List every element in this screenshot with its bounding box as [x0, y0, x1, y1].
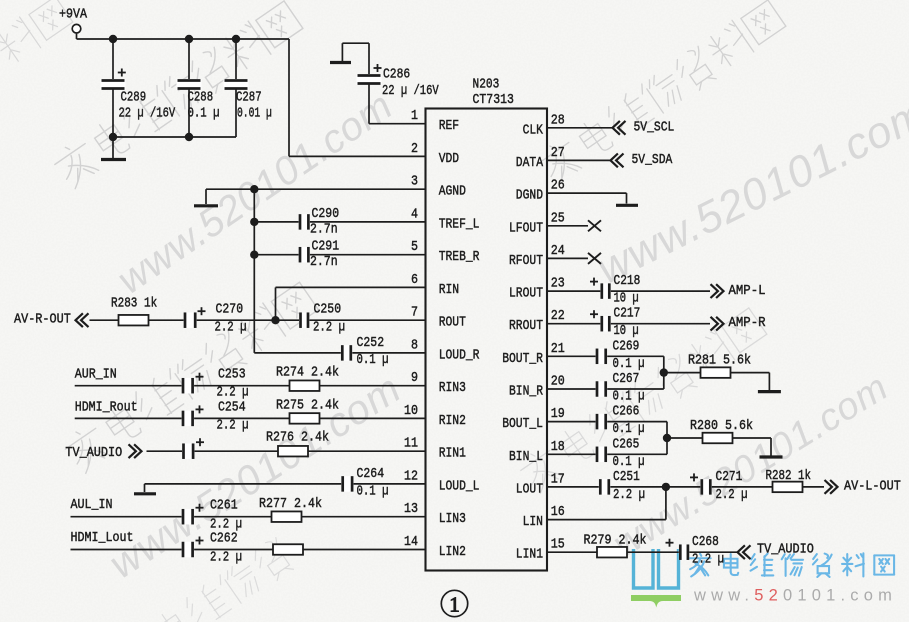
- svg-text:2.7n: 2.7n: [310, 255, 338, 270]
- svg-text:2.2 µ: 2.2 µ: [217, 386, 249, 401]
- svg-text:HDMI_Rout: HDMI_Rout: [75, 400, 138, 415]
- svg-text:0.1 µ: 0.1 µ: [613, 422, 645, 437]
- svg-text:2.2 µ: 2.2 µ: [313, 321, 345, 336]
- svg-text:2.2 µ: 2.2 µ: [613, 488, 645, 503]
- svg-text:0.1 µ: 0.1 µ: [188, 107, 220, 122]
- svg-text:R280 5.6k: R280 5.6k: [690, 419, 753, 434]
- svg-text:C286: C286: [383, 68, 410, 83]
- svg-text:LOUD_L: LOUD_L: [439, 478, 480, 494]
- svg-text:RIN3: RIN3: [439, 380, 466, 396]
- svg-text:0.1 µ: 0.1 µ: [357, 353, 389, 368]
- svg-text:R281 5.6k: R281 5.6k: [688, 354, 751, 369]
- svg-text:LIN1: LIN1: [516, 547, 543, 563]
- svg-text:0.1 µ: 0.1 µ: [613, 390, 645, 405]
- svg-text:0.1 µ: 0.1 µ: [357, 484, 389, 499]
- svg-text:www.520101.com: www.520101.com: [693, 587, 897, 605]
- svg-text:2.2 µ: 2.2 µ: [716, 488, 748, 503]
- svg-text:22: 22: [551, 309, 565, 324]
- svg-text:9: 9: [411, 371, 418, 386]
- svg-text:RIN2: RIN2: [439, 413, 466, 429]
- svg-text:AV-R-OUT: AV-R-OUT: [14, 313, 71, 328]
- svg-text:C251: C251: [613, 470, 640, 485]
- svg-text:C288: C288: [188, 91, 214, 106]
- svg-text:12: 12: [404, 469, 418, 484]
- svg-text:C265: C265: [613, 437, 640, 452]
- svg-text:C267: C267: [613, 372, 640, 387]
- svg-text:6: 6: [411, 273, 418, 288]
- svg-text:LIN2: LIN2: [439, 544, 466, 560]
- svg-text:TV_AUDIO: TV_AUDIO: [757, 543, 814, 558]
- svg-text:TREF_L: TREF_L: [439, 216, 480, 232]
- svg-text:2: 2: [411, 142, 418, 157]
- svg-text:RIN: RIN: [439, 282, 459, 298]
- svg-text:R279 2.4k: R279 2.4k: [584, 534, 647, 549]
- svg-text:C264: C264: [357, 467, 385, 482]
- svg-text:R275 2.4k: R275 2.4k: [276, 398, 339, 413]
- svg-text:11: 11: [404, 437, 418, 452]
- svg-text:13: 13: [404, 502, 418, 517]
- svg-text:25: 25: [551, 211, 565, 226]
- svg-text:16: 16: [551, 505, 565, 520]
- svg-text:AMP-R: AMP-R: [729, 316, 766, 331]
- svg-text:LIN3: LIN3: [439, 511, 466, 527]
- svg-text:C262: C262: [210, 532, 238, 547]
- svg-text:5V_SCL: 5V_SCL: [634, 120, 675, 135]
- svg-text:BIN_R: BIN_R: [509, 384, 543, 400]
- svg-text:R276 2.4k: R276 2.4k: [266, 431, 329, 446]
- svg-text:22 µ /16V: 22 µ /16V: [119, 107, 176, 122]
- svg-text:C217: C217: [614, 307, 641, 322]
- svg-text:CLK: CLK: [523, 122, 544, 138]
- svg-text:3: 3: [411, 175, 418, 190]
- svg-text:10 µ: 10 µ: [614, 292, 639, 307]
- svg-text:RFOUT: RFOUT: [509, 253, 543, 269]
- svg-text:R283 1k: R283 1k: [111, 297, 157, 312]
- svg-text:C270: C270: [216, 303, 244, 318]
- svg-text:2.2 µ: 2.2 µ: [217, 418, 249, 433]
- svg-text:ROUT: ROUT: [439, 315, 466, 331]
- svg-text:R277 2.4k: R277 2.4k: [259, 497, 322, 512]
- svg-text:C289: C289: [121, 91, 147, 106]
- svg-text:7: 7: [411, 306, 418, 321]
- svg-text:BOUT_R: BOUT_R: [502, 351, 543, 367]
- svg-text:LIN: LIN: [523, 514, 543, 530]
- svg-text:2.2 µ: 2.2 µ: [210, 551, 242, 566]
- svg-text:8: 8: [411, 338, 418, 353]
- svg-text:20: 20: [551, 375, 565, 390]
- svg-text:C261: C261: [210, 499, 238, 514]
- svg-text:0.01 µ: 0.01 µ: [237, 107, 272, 122]
- svg-text:CT7313: CT7313: [473, 93, 514, 108]
- svg-text:4: 4: [411, 207, 418, 222]
- svg-text:DGND: DGND: [516, 188, 543, 204]
- svg-text:TREB_R: TREB_R: [439, 249, 480, 265]
- svg-text:C290: C290: [312, 207, 340, 222]
- svg-text:+9VA: +9VA: [59, 8, 88, 23]
- svg-text:LROUT: LROUT: [509, 286, 543, 302]
- svg-text:15: 15: [551, 538, 565, 553]
- svg-text:REF: REF: [439, 118, 459, 134]
- svg-text:C252: C252: [357, 336, 385, 351]
- svg-text:2.2 µ: 2.2 µ: [692, 553, 724, 568]
- svg-text:18: 18: [551, 440, 565, 455]
- svg-text:BIN_L: BIN_L: [509, 449, 543, 465]
- svg-text:1: 1: [411, 109, 418, 124]
- svg-text:C271: C271: [716, 470, 743, 485]
- svg-text:10: 10: [404, 404, 418, 419]
- svg-text:5: 5: [411, 240, 418, 255]
- svg-text:AUR_IN: AUR_IN: [75, 368, 117, 383]
- svg-text:RIN1: RIN1: [439, 446, 466, 462]
- svg-text:17: 17: [551, 472, 565, 487]
- svg-text:R282 1k: R282 1k: [766, 469, 812, 484]
- svg-text:C287: C287: [236, 91, 262, 106]
- svg-text:AMP-L: AMP-L: [729, 284, 766, 299]
- svg-text:14: 14: [404, 535, 418, 550]
- svg-text:AGND: AGND: [439, 184, 466, 200]
- svg-text:AV-L-OUT: AV-L-OUT: [844, 479, 901, 494]
- svg-text:C266: C266: [613, 405, 640, 420]
- svg-text:N203: N203: [473, 78, 500, 93]
- svg-text:TV_AUDIO: TV_AUDIO: [65, 446, 122, 461]
- svg-text:10 µ: 10 µ: [614, 324, 639, 339]
- svg-text:23: 23: [551, 277, 565, 292]
- svg-text:RROUT: RROUT: [509, 318, 543, 334]
- svg-text:R274 2.4k: R274 2.4k: [276, 366, 339, 381]
- svg-text:BOUT_L: BOUT_L: [502, 416, 543, 432]
- svg-text:C268: C268: [692, 535, 719, 550]
- svg-text:28: 28: [551, 113, 565, 128]
- svg-text:LFOUT: LFOUT: [509, 220, 543, 236]
- svg-text:19: 19: [551, 407, 565, 422]
- svg-text:0.1 µ: 0.1 µ: [613, 455, 645, 470]
- svg-text:2.2 µ: 2.2 µ: [210, 518, 242, 533]
- svg-text:VDD: VDD: [439, 151, 459, 167]
- svg-text:C218: C218: [614, 274, 641, 289]
- svg-text:C269: C269: [613, 339, 640, 354]
- svg-text:LOUD_R: LOUD_R: [439, 347, 480, 363]
- svg-text:27: 27: [551, 146, 565, 161]
- svg-text:LOUT: LOUT: [516, 481, 543, 497]
- svg-text:24: 24: [551, 244, 565, 259]
- svg-text:DATA: DATA: [516, 155, 544, 171]
- svg-text:C254: C254: [218, 400, 246, 415]
- svg-text:2.2 µ: 2.2 µ: [215, 321, 247, 336]
- svg-text:C253: C253: [218, 368, 246, 383]
- svg-text:C250: C250: [314, 303, 342, 318]
- svg-text:21: 21: [551, 342, 565, 357]
- svg-text:2.7n: 2.7n: [310, 222, 338, 237]
- svg-text:1: 1: [449, 593, 460, 617]
- svg-text:0.1 µ: 0.1 µ: [613, 357, 645, 372]
- svg-text:26: 26: [551, 179, 565, 194]
- svg-text:HDMI_Lout: HDMI_Lout: [71, 531, 134, 546]
- svg-text:22 µ /16V: 22 µ /16V: [382, 84, 439, 99]
- svg-text:C291: C291: [312, 240, 340, 255]
- svg-text:AUL_IN: AUL_IN: [71, 498, 113, 513]
- svg-text:5V_SDA: 5V_SDA: [632, 153, 674, 168]
